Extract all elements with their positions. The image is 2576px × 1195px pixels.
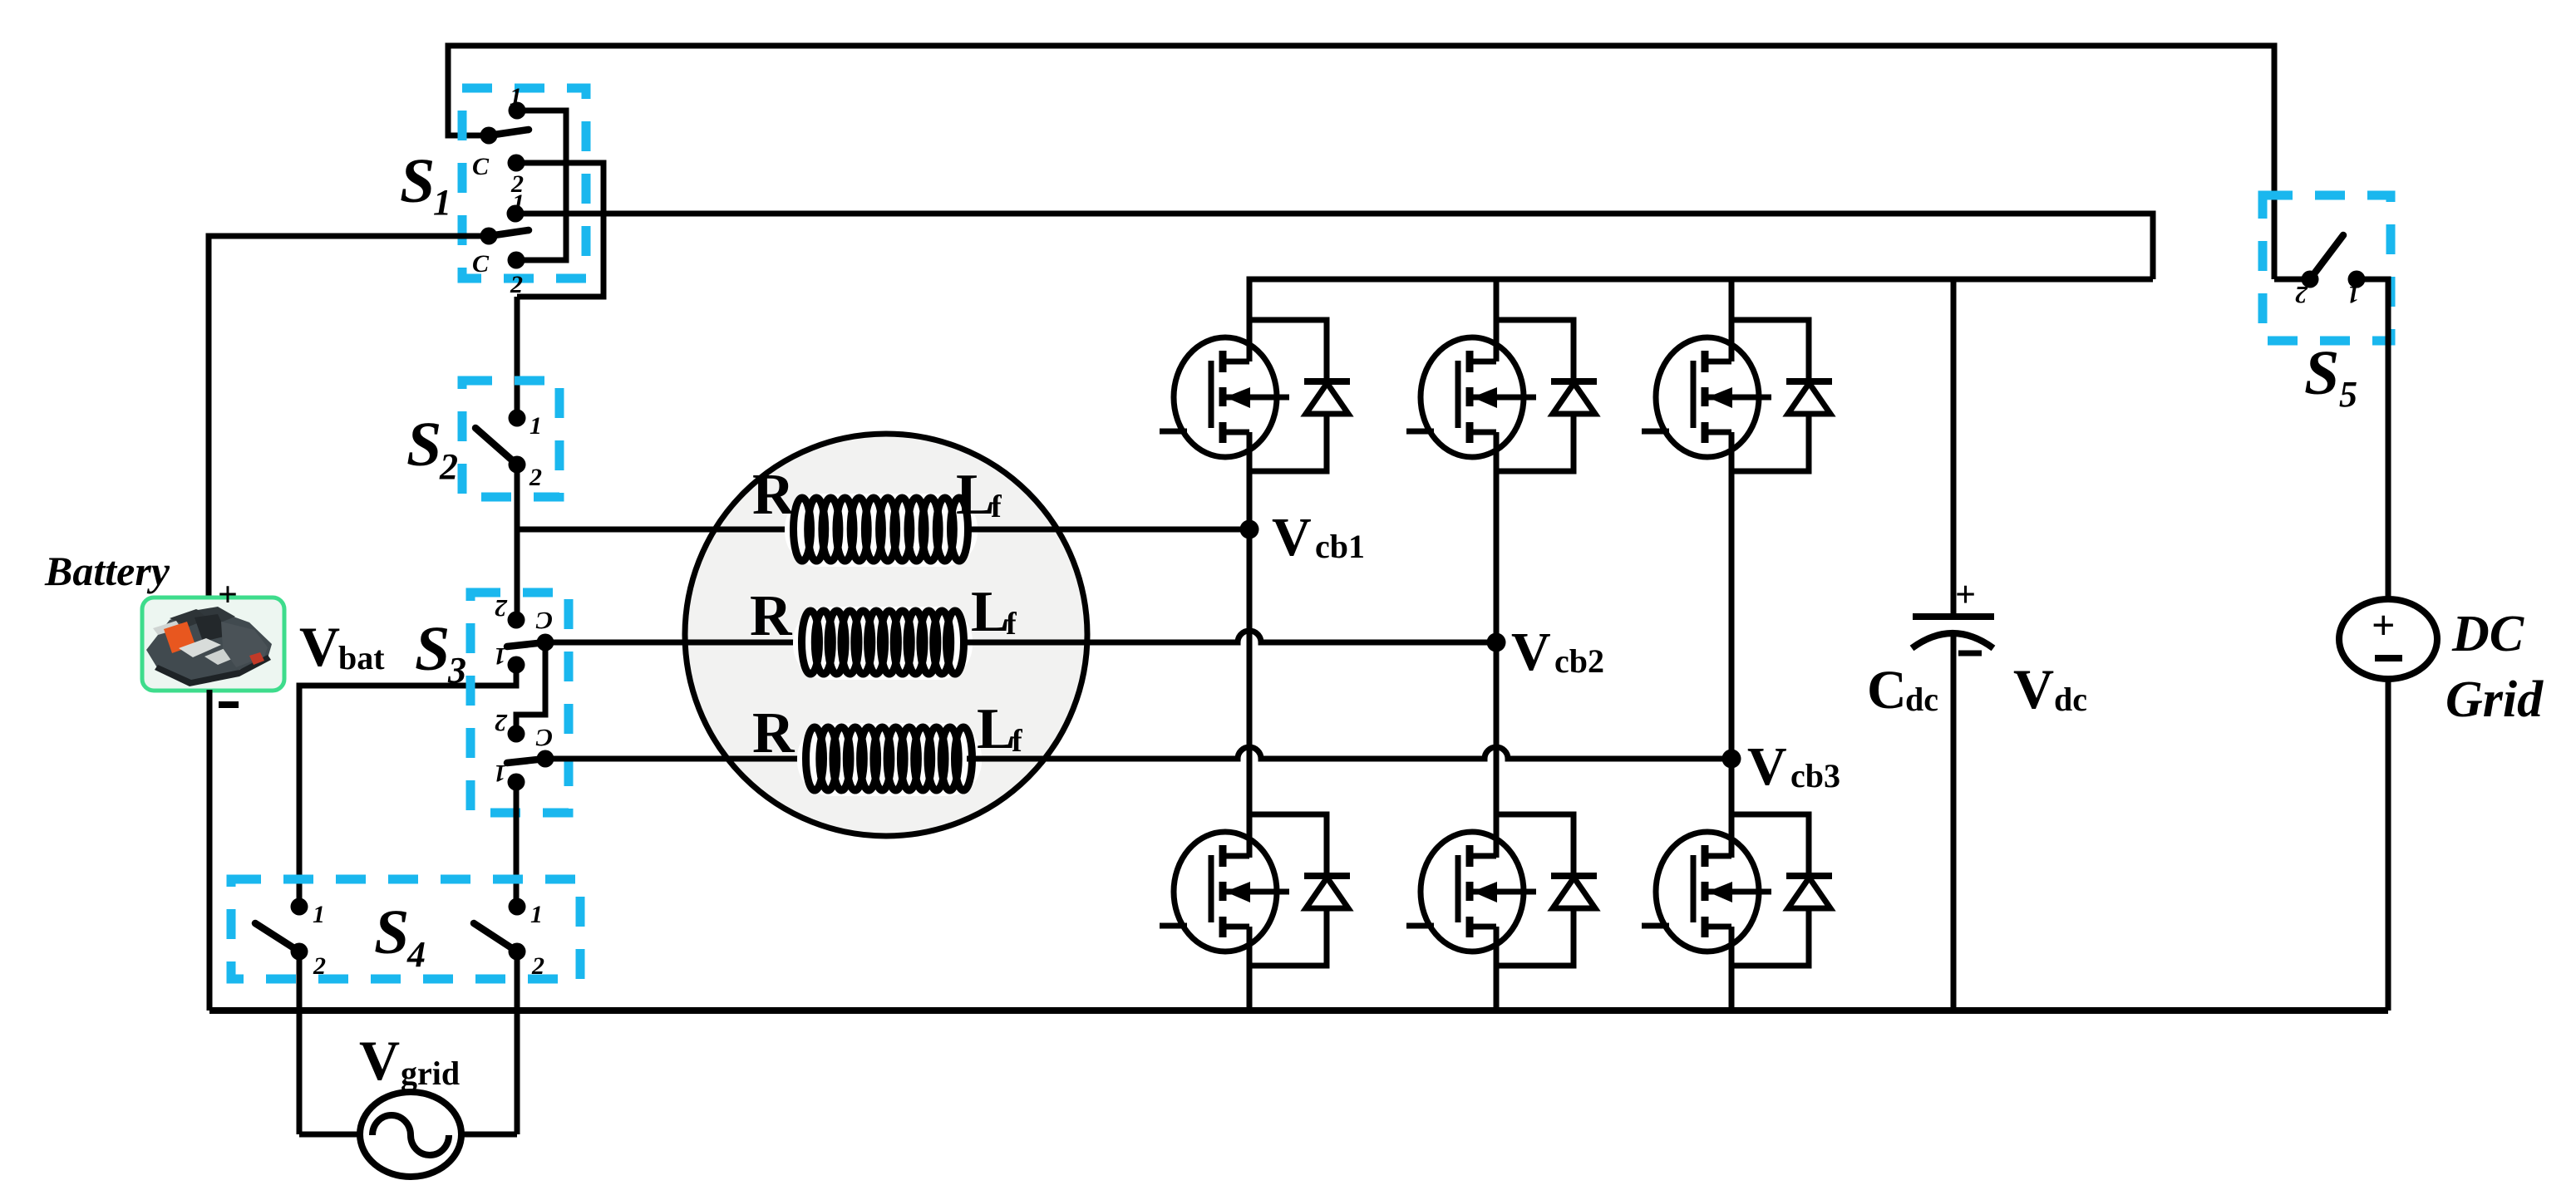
- inductor coil phase 1: [785, 494, 978, 567]
- svg-text:V: V: [359, 1029, 400, 1092]
- wire S1 to S2 terminal 1: [515, 297, 520, 418]
- wire phase 3 right segment: [967, 747, 1731, 759]
- S3 pole B terminal 2 dot: [508, 725, 525, 743]
- DC grid source: [2339, 599, 2437, 679]
- svg-text:2: 2: [495, 594, 508, 622]
- phase 1 Lf label: [956, 463, 1002, 527]
- S1 terminal 1 dot: [509, 102, 526, 120]
- inductor coil phase 2: [793, 607, 973, 680]
- wire phase 2 right segment: [963, 631, 1496, 642]
- S1 bottom terminal 2 label: [510, 271, 523, 298]
- svg-text:2: 2: [531, 952, 544, 980]
- svg-text:grid: grid: [401, 1055, 460, 1092]
- S4 pole A terminal 1 label: [313, 901, 325, 928]
- switch S4 label: [374, 897, 426, 975]
- svg-text:dc: dc: [1905, 681, 1938, 718]
- S4 pole B terminal 1 label: [530, 901, 543, 928]
- wire phase 2 left segment: [545, 640, 805, 646]
- wire bottom bus: [209, 1007, 2388, 1014]
- S1 pole A common dot: [480, 127, 498, 145]
- S4 pole A terminal 2 dot: [291, 943, 308, 961]
- svg-text:1: 1: [530, 901, 543, 928]
- svg-text:S: S: [415, 614, 450, 684]
- Vgrid right link wire: [461, 1132, 517, 1138]
- diode D1 top leg1: [1249, 320, 1350, 471]
- svg-text:L: L: [956, 463, 995, 527]
- svg-text:4: 4: [406, 934, 426, 975]
- S5 terminal 1 label: [2347, 281, 2360, 308]
- svg-text:+: +: [1955, 574, 1976, 615]
- switch S3 label: [415, 614, 466, 691]
- S1 pole B terminal labels 2 and 1: [510, 170, 525, 217]
- svg-text:f: f: [1006, 607, 1017, 642]
- wire phase 1 left segment: [517, 527, 796, 533]
- node Vcb2 label: [1511, 622, 1604, 682]
- S4 pole B blade: [474, 923, 517, 952]
- svg-text:+: +: [2372, 602, 2396, 648]
- svg-text:V: V: [299, 615, 340, 678]
- S5 terminal 1 dot: [2348, 271, 2366, 288]
- S5 blade: [2310, 235, 2343, 279]
- svg-text:DC: DC: [2451, 606, 2524, 662]
- wire S1 pole B to battery plus: [209, 236, 489, 597]
- phase 3 Lf label: [977, 697, 1023, 761]
- S3 pole A terminal C dot: [537, 634, 554, 652]
- svg-text:1: 1: [494, 642, 506, 670]
- wire S1 terminal C to S2: [516, 163, 603, 297]
- switch S1 label: [400, 146, 451, 223]
- transistor Q1 top leg1: [1160, 337, 1289, 457]
- svg-text:V: V: [2013, 657, 2054, 720]
- svg-text:2: 2: [2295, 281, 2308, 308]
- wire inverter top rail: [1249, 279, 2153, 361]
- svg-text:C: C: [535, 607, 553, 634]
- S3 pole A terminal 2 label: [495, 594, 508, 622]
- svg-text:f: f: [991, 489, 1002, 524]
- S5 terminal 2 label: [2295, 281, 2308, 308]
- wire leg1 verticals: [1247, 432, 1253, 1011]
- transistor Q4 bottom leg1: [1160, 832, 1289, 952]
- S1 pole A terminal C label: [472, 153, 490, 180]
- wire S4 pole B to Vgrid: [515, 952, 520, 1134]
- S4 pole B terminal 2 label: [531, 952, 544, 980]
- phase 3 R label: [752, 701, 795, 765]
- svg-text:Grid: Grid: [2445, 671, 2544, 728]
- svg-text:Battery: Battery: [44, 548, 170, 594]
- S1 terminal 1 label: [510, 83, 522, 111]
- svg-text:V: V: [1272, 507, 1312, 568]
- svg-text:cb2: cb2: [1554, 642, 1604, 680]
- diode D6 bottom leg3: [1731, 814, 1832, 966]
- svg-text:S: S: [374, 897, 409, 967]
- svg-text:C: C: [1867, 660, 1907, 720]
- S1 pole B common dot: [480, 228, 498, 245]
- S1 pole A blade: [489, 130, 529, 135]
- S1 pole B terminal C dot: [508, 252, 525, 269]
- S3 pole B terminal C label: [535, 724, 553, 751]
- svg-text:2: 2: [495, 709, 508, 736]
- wire battery minus down: [207, 690, 213, 1011]
- S2 blade: [475, 428, 517, 465]
- svg-text:2: 2: [439, 446, 458, 487]
- svg-text:C: C: [472, 250, 490, 278]
- svg-text:1: 1: [529, 412, 542, 440]
- diode D2 top leg2: [1496, 320, 1597, 471]
- svg-text:bat: bat: [338, 639, 385, 676]
- svg-text:5: 5: [2339, 374, 2357, 415]
- S3 pole A terminal C label: [535, 607, 553, 634]
- S2 terminal 1 dot: [509, 410, 526, 427]
- S2 terminal 2 label: [529, 464, 542, 491]
- wire S3 pole A C to pole B terminal 2: [516, 642, 545, 734]
- phase 2 R label: [750, 584, 793, 648]
- S1 pole B terminal 2 dot: [507, 205, 525, 223]
- capacitor Cdc curved plate: [1912, 633, 1993, 648]
- transistor Q5 bottom leg2: [1406, 832, 1536, 952]
- node Vdc label: [2013, 657, 2087, 720]
- S1 pole B blade: [489, 230, 529, 236]
- svg-text:1: 1: [313, 901, 325, 928]
- S2 terminal 1 label: [529, 412, 542, 440]
- svg-text:dc: dc: [2054, 681, 2087, 718]
- S4 pole A terminal 2 label: [313, 952, 326, 980]
- battery minus sign: [219, 701, 239, 708]
- battery Vbat label: [299, 615, 385, 678]
- switch S1 dashed enclosure: [462, 88, 586, 278]
- phase 2 Lf label: [971, 580, 1017, 644]
- svg-text:S: S: [2304, 338, 2339, 408]
- wire S1 pole B terminal 2 to DC rail: [515, 214, 2153, 279]
- capacitor Cdc plus sign: [1955, 574, 1976, 615]
- wire S2 terminal 2 down to S3: [515, 465, 520, 620]
- node Vcb1 dot: [1240, 520, 1259, 539]
- svg-text:R: R: [752, 463, 795, 527]
- svg-text:R: R: [750, 584, 793, 648]
- svg-text:C: C: [535, 724, 553, 751]
- switch S2 label: [406, 410, 458, 487]
- svg-text:2: 2: [510, 271, 523, 298]
- switch S5 label: [2304, 338, 2357, 415]
- S4 pole A blade: [255, 923, 299, 952]
- wire leg3 verticals: [1729, 279, 1735, 1011]
- battery plus sign: [218, 576, 238, 614]
- node Vcb2 dot: [1487, 633, 1506, 652]
- switch S2 dashed enclosure: [462, 381, 559, 497]
- transistor Q3 top leg3: [1642, 337, 1771, 457]
- wire S1 terminal1 to S1 pole B terminal C: [516, 111, 566, 260]
- transistor Q6 bottom leg3: [1642, 832, 1771, 952]
- wire DC grid riser: [2386, 679, 2391, 1011]
- svg-text:cb1: cb1: [1315, 528, 1365, 565]
- S4 pole B terminal 1 dot: [509, 898, 526, 916]
- transistor Q2 top leg2: [1406, 337, 1536, 457]
- S3 pole A terminal 1 dot: [508, 657, 525, 674]
- diode D4 bottom leg1: [1249, 814, 1350, 966]
- wire phase 3 left segment: [545, 756, 808, 762]
- S3 pole B terminal C dot: [537, 750, 554, 768]
- node Vcb3 label: [1747, 736, 1840, 797]
- svg-text:1: 1: [494, 760, 506, 787]
- wire S5 terminal 1 to DC grid: [2357, 279, 2388, 599]
- battery label: [44, 548, 170, 594]
- wire top DC bus: [448, 46, 2274, 279]
- S3 pole B blade: [507, 759, 545, 763]
- svg-text:S: S: [406, 410, 441, 479]
- node Vcb1 label: [1272, 507, 1365, 568]
- svg-text:1: 1: [433, 182, 451, 223]
- switch S4 dashed enclosure: [231, 879, 580, 979]
- S4 pole B terminal 2 dot: [509, 943, 526, 961]
- wire S3 terminal1 and Vbat node down to S4 pole A: [299, 665, 516, 907]
- switch S3 dashed enclosure: [470, 593, 569, 813]
- diode D3 top leg3: [1731, 320, 1832, 471]
- S5 terminal 2 dot: [2302, 271, 2319, 288]
- capacitor Cdc wire bottom: [1951, 633, 1957, 1011]
- svg-text:3: 3: [447, 650, 466, 691]
- switch S5 dashed enclosure: [2263, 195, 2391, 341]
- capacitor Cdc label: [1867, 660, 1938, 720]
- Vgrid left link wire: [299, 1132, 360, 1138]
- inductor coil phase 3: [797, 723, 982, 796]
- wire S3 pole B terminal 1 to S4 pole B: [514, 782, 520, 907]
- phase 1 R label: [752, 463, 795, 527]
- S3 pole B terminal 2 label: [495, 709, 508, 736]
- wire S4 pole A to Vgrid: [297, 952, 303, 1134]
- S4 pole A terminal 1 dot: [291, 898, 308, 916]
- wire phase 1 right segment: [964, 527, 1249, 533]
- DC grid label: [2445, 606, 2544, 728]
- capacitor Cdc minus tick: [1958, 651, 1982, 657]
- diode D5 bottom leg2: [1496, 814, 1597, 966]
- svg-text:S: S: [400, 146, 435, 216]
- svg-text:L: L: [971, 580, 1010, 644]
- S3 pole B terminal 1 dot: [508, 774, 525, 791]
- S1 pole A terminal C dot: [508, 155, 525, 172]
- node Vcb3 dot: [1722, 750, 1741, 769]
- svg-text:V: V: [1747, 736, 1787, 797]
- svg-text:+: +: [218, 576, 238, 614]
- S3 pole A terminal 2 dot: [508, 612, 525, 629]
- svg-text:f: f: [1012, 724, 1023, 759]
- svg-text:1: 1: [510, 83, 522, 111]
- svg-text:2: 2: [529, 464, 542, 491]
- S1 pole B terminal C label: [472, 250, 490, 278]
- S3 pole A blade: [507, 642, 545, 647]
- Vgrid label: [359, 1029, 460, 1092]
- S3 pole B terminal 1 label: [494, 760, 506, 787]
- battery image frame: [142, 597, 284, 691]
- svg-text:L: L: [977, 697, 1016, 761]
- S2 terminal 2 dot: [509, 456, 526, 474]
- svg-text:R: R: [752, 701, 795, 765]
- svg-text:1: 1: [2347, 281, 2360, 308]
- svg-text:cb3: cb3: [1790, 757, 1840, 794]
- S5 feed wire: [2274, 277, 2310, 283]
- wire leg2 verticals: [1494, 279, 1500, 1011]
- coupling inductor unit (gray circle): [685, 434, 1087, 836]
- battery pack illustration: [146, 607, 272, 686]
- svg-text:V: V: [1511, 622, 1551, 682]
- capacitor Cdc top plate: [1913, 613, 1994, 620]
- Vgrid AC source: [360, 1092, 461, 1177]
- svg-text:C: C: [472, 153, 490, 180]
- capacitor Cdc wire top: [1951, 279, 1957, 617]
- S3 pole A terminal 1 label: [494, 642, 506, 670]
- svg-text:2: 2: [313, 952, 326, 980]
